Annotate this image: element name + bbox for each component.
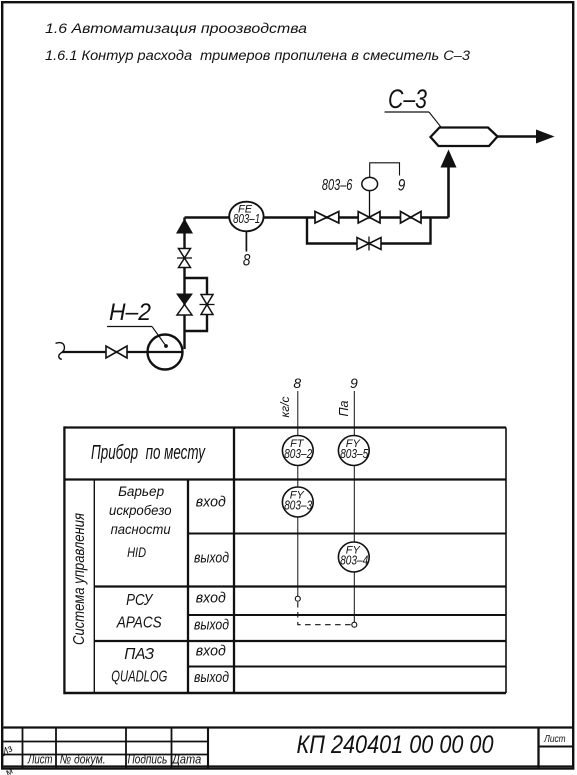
pump H-2 circle [148,335,183,370]
svg-text:8: 8 [243,252,251,270]
rsu bottom line [94,640,506,642]
svg-text:вход: вход [196,591,226,607]
table left edge [63,426,65,694]
svg-text:РСУ: РСУ [126,592,154,609]
svg-text:803–4: 803–4 [340,553,368,567]
outlet arrowhead [536,130,555,144]
svg-text:Па: Па [337,400,351,416]
pump leader dot [164,344,168,348]
barrier column divider [187,480,189,694]
FY 803-3 instrument circle [282,487,313,517]
svg-text:HID: HID [127,544,146,560]
title block column ndokum [125,728,127,769]
FY 803-4 instrument circle [338,542,369,572]
title block top line [3,726,573,728]
title block row line 2 [3,754,208,756]
svg-text:С–3: С–3 [388,84,427,114]
control valve 803-6 body [358,191,380,223]
bypass valve [357,237,381,251]
vessel C-3 hexagon [431,128,498,147]
check valve filled top [177,294,192,305]
manifold valve right [401,212,422,224]
title block row line 1 [3,741,208,743]
bypass pipe around control valve [307,218,431,244]
FE 803-1 instrument circle [229,202,263,232]
paz split line [188,666,506,668]
list cell split [539,745,574,747]
svg-text:искробезо: искробезо [109,502,172,518]
signal line 9 vertical [353,391,355,622]
svg-text:Барьер: Барьер [118,483,164,499]
FE signal drop line [245,232,247,252]
svg-text:кг/с: кг/с [278,397,292,418]
svg-text:1.6.1 Контур расхода тримеров: 1.6.1 Контур расхода тримеров пропилена … [45,48,471,63]
manifold valve left [315,212,339,224]
gate valve on riser [177,249,192,268]
svg-text:выход: выход [194,618,229,634]
svg-text:№ докум.: № докум. [60,753,106,767]
vessel leader underline [385,111,430,113]
FT 803-2 instrument circle [282,436,313,466]
system column divider [93,480,95,694]
actuator signal bracket [370,163,400,178]
line 8 terminal circle [295,596,300,601]
signal line 8 vertical [297,391,299,596]
pump riser pipe [183,218,185,350]
riser up arrowhead [176,219,193,234]
svg-text:вход: вход [196,495,226,511]
svg-text:803–2: 803–2 [284,447,312,461]
svg-text:Подпись: Подпись [127,753,167,767]
svg-text:вход: вход [196,644,226,660]
svg-text:Лист: Лист [543,733,565,745]
title block bottom thick line [3,765,573,767]
in/out column divider [233,428,235,694]
inlet valve [106,346,127,358]
main horizontal pipe [185,216,449,218]
title block column before list cell [537,728,539,769]
svg-text:803–1: 803–1 [233,212,260,226]
title block column podpis [171,728,173,769]
table top line [64,426,506,428]
FY 803-5 instrument circle [338,436,369,466]
pump inlet pipe [62,351,183,353]
svg-text:Система управления: Система управления [71,513,88,645]
bypass check valve [200,295,215,315]
svg-text:пасности: пасности [111,521,171,537]
row1 bottom line [64,478,506,480]
riser arrowhead [441,150,457,168]
svg-text:APACS: APACS [116,615,162,632]
table bottom line [64,692,506,694]
svg-text:1.6 Автоматизация проозводства: 1.6 Автоматизация проозводства [45,21,308,36]
svg-text:Дата: Дата [170,753,201,767]
barrier bottom line [94,585,506,587]
svg-text:Н–2: Н–2 [109,299,151,326]
svg-text:QUADLOG: QUADLOG [111,669,167,686]
svg-text:ПАЗ: ПАЗ [124,646,154,663]
svg-text:КП 240401 00 00 00: КП 240401 00 00 00 [297,731,494,759]
check valve hollow bottom [177,305,192,316]
pump leader underline [107,326,152,328]
svg-text:выход: выход [194,551,229,567]
svg-text:803–6: 803–6 [322,177,353,194]
title block column data [207,728,209,769]
svg-text:9: 9 [350,375,358,391]
svg-text:8: 8 [293,375,301,391]
title block column izm [22,728,24,769]
dashed internal link [298,602,352,625]
riser pipe to C-3 [447,160,450,218]
svg-text:803–3: 803–3 [284,498,312,512]
outlet pipe from C-3 [498,135,538,137]
rsu split line [188,614,506,616]
svg-text:Лист: Лист [27,753,52,767]
pump leader line [152,327,166,347]
control valve actuator circle [362,177,378,190]
svg-text:выход: выход [194,670,229,686]
svg-text:803–5: 803–5 [340,447,368,461]
pump inlet break squiggle [56,343,65,360]
bypass around check valve [185,278,208,331]
vessel leader dot [443,130,447,134]
svg-text:9: 9 [398,176,406,194]
table right edge [505,428,507,694]
svg-text:Прибор по месту: Прибор по месту [91,442,206,464]
barrier in/out split line [188,533,506,535]
vessel leader line [429,112,445,132]
title block column list [55,728,57,769]
line 9 terminal circle [352,622,357,627]
